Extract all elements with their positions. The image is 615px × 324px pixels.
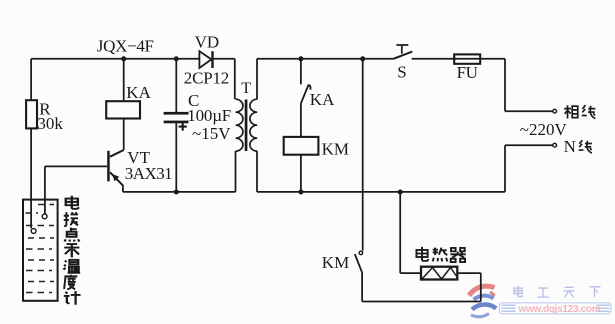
svg-text:KA: KA: [126, 83, 151, 102]
svg-text:JQX−4F: JQX−4F: [97, 37, 154, 56]
svg-text:KA: KA: [310, 90, 335, 109]
svg-text:~220V: ~220V: [520, 120, 568, 139]
svg-text:30k: 30k: [37, 114, 63, 133]
svg-text:2CP12: 2CP12: [184, 68, 229, 87]
svg-text:www.dqjs123.com: www.dqjs123.com: [518, 304, 601, 315]
svg-text:KM: KM: [322, 139, 349, 158]
svg-text:~15V: ~15V: [192, 124, 231, 143]
svg-text:100µF: 100µF: [187, 106, 231, 125]
svg-text:N: N: [564, 137, 576, 156]
svg-text:T: T: [241, 80, 251, 97]
svg-text:VD: VD: [195, 32, 220, 51]
svg-text:FU: FU: [457, 63, 478, 82]
svg-text:KM: KM: [322, 253, 349, 272]
svg-text:S: S: [397, 62, 406, 81]
svg-text:3AX31: 3AX31: [125, 164, 172, 183]
